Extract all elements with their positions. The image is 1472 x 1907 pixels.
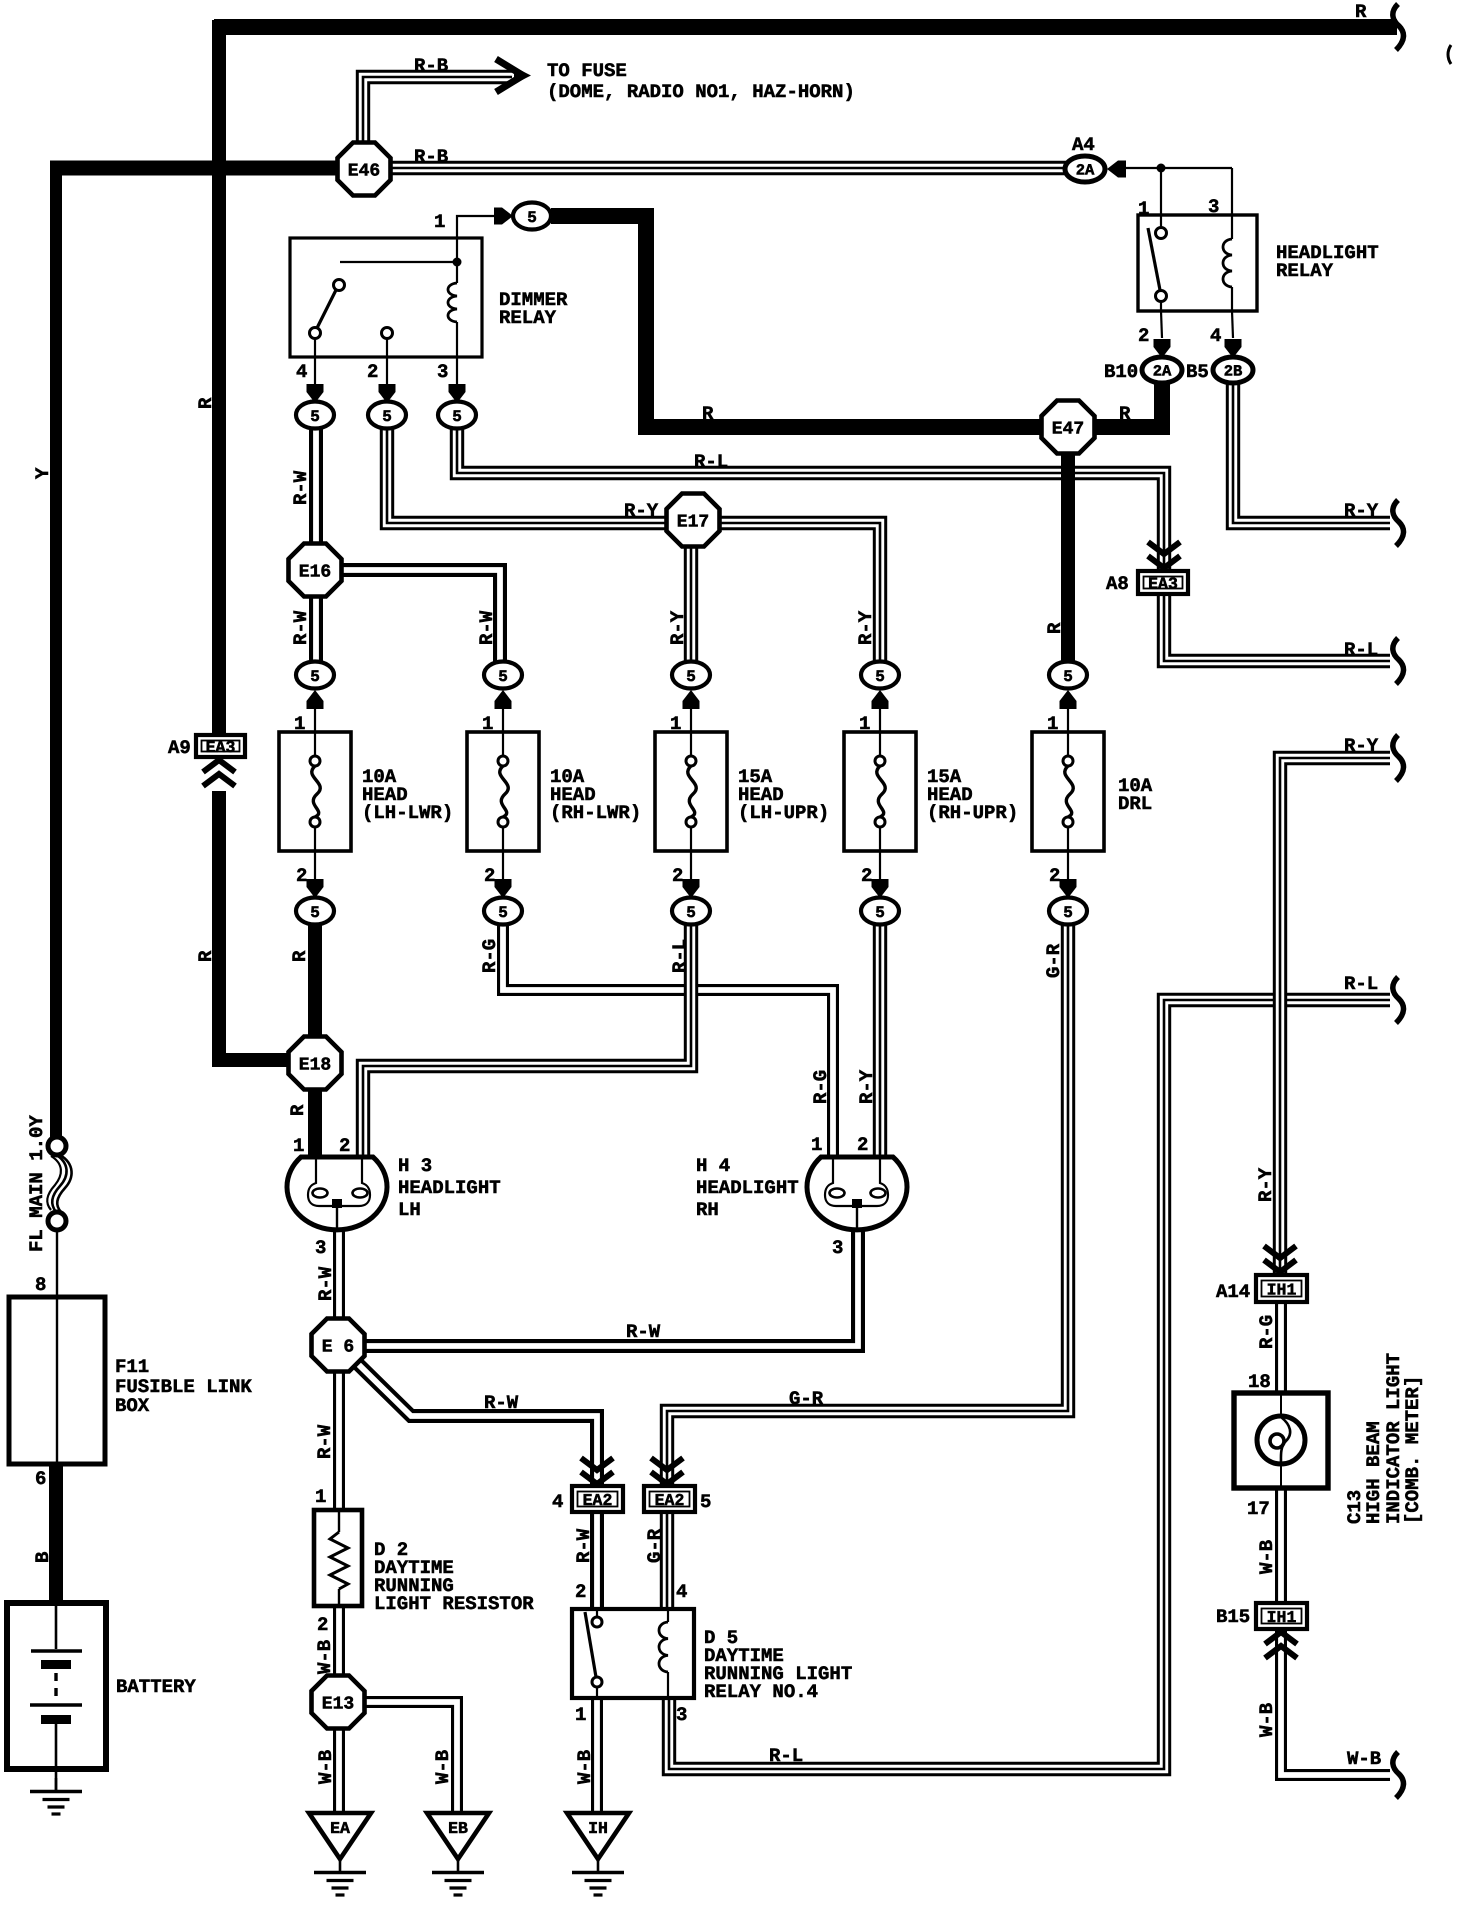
svg-text:4: 4 (296, 361, 307, 383)
fuse 15A (LH-UPR) pin1 label (670, 713, 681, 735)
wire W-B label (to IH) (574, 1750, 596, 1784)
arrow into oval 5 (dimmer feed) (494, 208, 513, 225)
wire R-Y label (dimmer pin2) (624, 500, 659, 522)
svg-text:E47: E47 (1052, 420, 1084, 440)
svg-text:R-Y: R-Y (855, 610, 877, 645)
wire R label (top right) (1355, 1, 1367, 23)
wire W-B (E13 to ground EA) (333, 1727, 345, 1814)
svg-text:R: R (702, 403, 714, 425)
headlight relay pin labels top (1138, 196, 1219, 220)
wire R-W (H3 pin3 to E6) (333, 1231, 345, 1322)
svg-text:17: 17 (1247, 1498, 1270, 1520)
svg-text:5: 5 (875, 668, 885, 686)
headlight relay pin2 lead (1138, 311, 1162, 347)
connector B10/2A (1104, 357, 1182, 383)
arrow into oval above fuse 10A (RH-LWR) (495, 690, 512, 733)
edge connector R-Y (upper) (1393, 500, 1404, 546)
svg-text:EB: EB (448, 1819, 468, 1838)
svg-text:RELAY: RELAY (1276, 260, 1334, 282)
svg-text:G-R: G-R (789, 1388, 824, 1410)
text D 2 DAYTIME RUNNING LIGHT RESISTOR (374, 1539, 534, 1615)
svg-text:5: 5 (686, 904, 696, 922)
svg-text:2: 2 (484, 865, 495, 887)
svg-text:W-B: W-B (1256, 1703, 1278, 1737)
arrow into oval below fuse 10A (RH-LWR) (495, 851, 512, 898)
svg-text:A14: A14 (1216, 1281, 1250, 1303)
fuse 10A DRL (1032, 732, 1104, 851)
svg-text:RELAY: RELAY (499, 307, 557, 329)
wire R (main feed bus, top) (214, 19, 1397, 35)
oval 5 (dimmer pin3) (438, 402, 476, 429)
wire G-R (fuse DRL output to connector EA2 pin5) (667, 924, 1068, 1486)
svg-text:4: 4 (1210, 325, 1221, 347)
headlight relay switch (1148, 215, 1167, 311)
svg-text:2: 2 (339, 1135, 350, 1157)
wire R (E47 down to DRL fuse oval) (1061, 450, 1075, 664)
arrow into oval below fuse 10A (LH-LWR) (307, 851, 324, 898)
svg-text:EA2: EA2 (655, 1491, 685, 1510)
text TO FUSE (547, 60, 627, 82)
arrow into oval above fuse 15A (RH-UPR) (872, 690, 889, 733)
wire R label (E47 to B10) (1119, 403, 1131, 425)
svg-text:E46: E46 (348, 162, 380, 182)
svg-text:5: 5 (527, 209, 537, 227)
text H 4 HEADLIGHT RH (696, 1155, 799, 1221)
svg-text:R-L: R-L (1344, 973, 1378, 995)
connector B5/2B (1186, 357, 1253, 383)
D5 pin1 label (575, 1704, 586, 1726)
svg-text:R: R (1044, 622, 1066, 634)
connector IH1 (A14) (1216, 1275, 1307, 1303)
wire R-L label (right edge upper) (1344, 639, 1378, 661)
svg-text:E18: E18 (299, 1056, 331, 1076)
wire R label (fuse LH-LWR output) (289, 950, 311, 962)
svg-text:5: 5 (310, 408, 320, 426)
svg-text:R-L: R-L (669, 939, 691, 973)
headlight relay feed wire (1126, 164, 1232, 216)
arrow into B10/2A (1154, 339, 1171, 358)
svg-text:R-B: R-B (414, 55, 448, 77)
svg-text:R: R (1119, 403, 1131, 425)
wire W-B label (to EA) (315, 1750, 337, 1784)
svg-text:R-G: R-G (479, 939, 501, 973)
wire R label (E18 to H3) (287, 1104, 309, 1116)
wire W-B (D5 pin1 to ground IH) (591, 1698, 603, 1814)
fuse 15A (RH-UPR) pin2 label (861, 865, 872, 887)
edge connector W-B (bottom) (1393, 1752, 1404, 1798)
dimmer relay box (290, 238, 482, 357)
wire R-W label (E6 to H4) (626, 1321, 661, 1343)
wire R-B label (to fuse) (414, 55, 448, 77)
svg-text:R-L: R-L (769, 1745, 803, 1767)
svg-text:2: 2 (861, 865, 872, 887)
svg-text:B10: B10 (1104, 361, 1138, 383)
fuse 15A (LH-UPR) (655, 732, 727, 851)
svg-text:HEADLIGHT: HEADLIGHT (696, 1177, 799, 1199)
fuse 15A (RH-UPR) value label (927, 766, 1018, 824)
svg-text:R-B: R-B (414, 146, 448, 168)
wire W-B label (C13 to B15) (1256, 1540, 1278, 1574)
wire R-G label (H4 pin1) (810, 1070, 832, 1104)
dimmer pin2 lead (367, 357, 387, 385)
svg-text:HIGH BEAM: HIGH BEAM (1363, 1421, 1385, 1524)
wire R-Y (dimmer pin2 to E17) (387, 428, 668, 523)
wire R-W (E6 to H4 pin3) (364, 1231, 858, 1346)
fuse 10A (RH-LWR) value label (550, 766, 641, 824)
svg-text:FL MAIN 1.0Y: FL MAIN 1.0Y (26, 1115, 48, 1252)
wire R-W (EA2 to D5 pin2) (590, 1512, 604, 1611)
svg-text:B5: B5 (1186, 361, 1209, 383)
oval 5 (above fuse 10A (RH-LWR)) (484, 662, 522, 689)
svg-text:A9: A9 (168, 737, 191, 759)
svg-text:RELAY NO.4: RELAY NO.4 (704, 1681, 818, 1703)
wire R-W (E16 right to fuse RH-LWR) (341, 570, 500, 663)
wire R-W (dimmer pin4 to E16) (309, 428, 323, 546)
fuse 10A (RH-LWR) pin1 label (482, 713, 493, 735)
wire R-Y (E17 down to fuse LH-UPR) (684, 546, 698, 663)
arrow to fuse (open arrowhead) (496, 59, 531, 92)
connector E18 (289, 1037, 342, 1090)
headlight relay box (1138, 215, 1257, 311)
oval 5 (below fuse 15A (LH-UPR)) (672, 898, 710, 925)
chevron into EA2 pin5 (651, 1458, 683, 1484)
wire R-Y (headlight relay B5/2B to right edge) (1233, 384, 1390, 523)
wire R-Y label (E17 to LH-UPR fuse) (667, 610, 689, 645)
svg-text:LIGHT RESISTOR: LIGHT RESISTOR (374, 1593, 534, 1615)
connector E46 (338, 143, 391, 196)
D5 coil (659, 1609, 668, 1698)
svg-text:5: 5 (498, 904, 508, 922)
wire R-W label (pin4 to E16) (290, 470, 312, 505)
wire R-L (D5 pin3 loop to right edge) (669, 1000, 1390, 1769)
wire R-L label (right edge lower) (1344, 973, 1378, 995)
text H 3 HEADLIGHT LH (398, 1155, 501, 1221)
oval 5 (dimmer pin2) (368, 402, 406, 429)
svg-text:6: 6 (35, 1468, 46, 1490)
dimmer relay switch (310, 258, 462, 358)
svg-text:4: 4 (676, 1581, 687, 1603)
wire R-W label (E16 to RH-LWR fuse) (476, 610, 498, 645)
svg-text:R-W: R-W (484, 1392, 519, 1414)
arrow into oval above fuse 10A (LH-LWR) (307, 690, 324, 733)
wire W-B label (D2 to E13) (314, 1640, 336, 1674)
svg-text:R-L: R-L (694, 451, 728, 473)
arrow into dimmer pin2 oval (379, 384, 396, 403)
arrow into oval above fuse 10A DRL (1060, 690, 1077, 733)
dimmer relay coil (448, 238, 457, 357)
dimmer relay pin1 label (434, 211, 445, 233)
svg-text:R-Y: R-Y (624, 500, 659, 522)
wire R-W label (E6 to D2) (314, 1424, 336, 1459)
svg-text:2: 2 (317, 1614, 328, 1636)
svg-text:1: 1 (811, 1134, 822, 1156)
wire Y (battery feed horizontal) (50, 161, 340, 176)
svg-text:4: 4 (552, 1491, 563, 1513)
svg-text:W-B: W-B (314, 1640, 336, 1674)
wire R-G label (fuse RH-LWR out) (479, 939, 501, 973)
oval 5 (below fuse 15A (RH-UPR)) (861, 898, 899, 925)
svg-text:2B: 2B (1224, 363, 1243, 381)
wire R-Y label (2B to edge) (1344, 500, 1379, 522)
wire W-B label (right edge) (1347, 1748, 1381, 1770)
svg-text:R-G: R-G (1256, 1315, 1278, 1349)
daytime running light relay D5 box (572, 1609, 694, 1698)
svg-text:LH: LH (398, 1199, 421, 1221)
wire R-L label (dimmer pin3) (694, 451, 728, 473)
wire R-Y (E17 right to fuse RH-UPR) (718, 523, 880, 663)
svg-text:R-Y: R-Y (856, 1069, 878, 1104)
text D 5 DAYTIME RUNNING LIGHT RELAY NO.4 (704, 1627, 852, 1703)
svg-text:R-Y: R-Y (1344, 500, 1379, 522)
text FL MAIN 1.0Y (26, 1115, 48, 1252)
oval 5 (dimmer pin4) (296, 402, 334, 429)
oval 5 (above fuse 10A DRL) (1049, 662, 1087, 689)
svg-text:R-W: R-W (626, 1321, 661, 1343)
wire R-B (E46 to connector A4/2A) (388, 161, 1066, 175)
svg-text:E16: E16 (299, 563, 331, 583)
wire R-W (E16 down to fuse LH-LWR) (309, 594, 323, 663)
C13 pin17 label (1247, 1498, 1270, 1520)
edge connector R-L (upper) (1393, 638, 1404, 684)
svg-text:2A: 2A (1153, 363, 1172, 381)
wire Y (battery feed vertical) (32, 161, 56, 1137)
D5 switch (585, 1609, 602, 1698)
wire R-W label (E6 to EA2) (484, 1392, 519, 1414)
svg-text:F11: F11 (115, 1356, 149, 1378)
svg-text:B15: B15 (1216, 1606, 1250, 1628)
svg-text:2: 2 (1138, 325, 1149, 347)
arrow into oval below fuse 15A (LH-UPR) (683, 851, 700, 898)
svg-text:R-Y: R-Y (1255, 1167, 1277, 1202)
fuse 10A (LH-LWR) pin2 label (296, 865, 307, 887)
wire R (dimmer relay pin1 feed, thick) (551, 216, 1046, 427)
connector E16 (289, 544, 342, 597)
svg-text:(RH-UPR): (RH-UPR) (927, 802, 1018, 824)
D5 pin4 label (676, 1581, 687, 1603)
wire R-W (E6 down to resistor D2) (333, 1370, 345, 1512)
arrow into B5/2B (1225, 339, 1242, 358)
connector E17 (667, 494, 720, 547)
svg-text:BOX: BOX (115, 1395, 150, 1417)
wire W-B label (below B15) (1256, 1703, 1278, 1737)
chevron into EA3/A8 (1148, 542, 1180, 568)
svg-text:1: 1 (315, 1486, 326, 1508)
svg-text:1: 1 (293, 1135, 304, 1157)
svg-text:(DOME, RADIO NO1, HAZ-HORN): (DOME, RADIO NO1, HAZ-HORN) (547, 81, 855, 103)
svg-text:[COMB. METER]: [COMB. METER] (1402, 1376, 1424, 1524)
svg-text:2: 2 (367, 361, 378, 383)
arrow into oval above fuse 15A (LH-UPR) (683, 690, 700, 733)
svg-text:R: R (1355, 1, 1367, 23)
svg-text:E 6: E 6 (322, 1338, 354, 1358)
svg-text:E13: E13 (322, 1695, 354, 1715)
svg-text:R-Y: R-Y (667, 610, 689, 645)
headlight H3 (LH) (287, 1157, 387, 1231)
wire R (EA3/A9 to E18) (219, 791, 292, 1060)
text (DOME, RADIO NO1, HAZ-HORN) (547, 81, 855, 103)
dimmer relay pin1 wire (457, 216, 494, 238)
headlight relay coil (1223, 215, 1232, 311)
oval 5 (dimmer feed) (513, 203, 551, 230)
headlight H4 pin labels (811, 1134, 868, 1156)
wire R (E18 to headlight H3 pin 1) (308, 1086, 322, 1158)
svg-text:W-B: W-B (574, 1750, 596, 1784)
fuse 15A (LH-UPR) value label (738, 766, 829, 824)
svg-text:2: 2 (296, 865, 307, 887)
wire FL to F11 (56, 1230, 58, 1297)
wire W-B (D2 to E13) (333, 1604, 345, 1679)
svg-text:2: 2 (857, 1134, 868, 1156)
wire R (fuse LH-LWR output to E18) (308, 921, 322, 1040)
wire R-B label (E46 to A4) (414, 146, 448, 168)
svg-text:2: 2 (575, 1581, 586, 1603)
oval 5 (below fuse 10A (RH-LWR)) (484, 898, 522, 925)
connector E6 (312, 1319, 365, 1372)
svg-text:R: R (195, 397, 217, 409)
connector E47 (1042, 401, 1095, 454)
fuse 15A (LH-UPR) pin2 label (672, 865, 683, 887)
fuse 10A DRL pin1 label (1047, 713, 1058, 735)
svg-text:DRL: DRL (1118, 793, 1152, 815)
svg-text:G-R: G-R (1043, 943, 1065, 978)
dimmer pin4 lead (296, 357, 315, 385)
wire R-L label (bottom) (769, 1745, 803, 1767)
wire W-B (C13 pin17 to IH1/B15) (1275, 1486, 1287, 1602)
svg-text:BATTERY: BATTERY (116, 1676, 196, 1698)
wire W-B (B15 to right edge) (1281, 1630, 1390, 1775)
svg-text:(LH-LWR): (LH-LWR) (362, 802, 453, 824)
arrow into A4/2A (1107, 161, 1126, 178)
oval 5 (above fuse 15A (RH-UPR)) (861, 662, 899, 689)
D2 pin1 label (315, 1486, 326, 1508)
daytime running light resistor D2 (314, 1510, 362, 1606)
headlight H3 pin labels (293, 1135, 350, 1157)
wire R label (vertical feed, upper) (195, 397, 217, 409)
text F11 FUSIBLE LINK BOX (115, 1356, 252, 1417)
arrow into dimmer pin4 oval (307, 384, 324, 403)
wire R-Y label (long vertical) (1255, 1167, 1277, 1202)
wire R-Y label (E17 to RH-UPR fuse) (855, 610, 877, 645)
chevron into EA2 pin4 (581, 1458, 613, 1484)
svg-text:H 3: H 3 (398, 1155, 432, 1177)
svg-text:2: 2 (672, 865, 683, 887)
svg-text:3: 3 (832, 1237, 843, 1259)
svg-text:W-B: W-B (432, 1750, 454, 1784)
edge connector R-L (lower) (1393, 977, 1404, 1023)
svg-text:A8: A8 (1106, 573, 1129, 595)
wire R-L label (fuse LH-UPR out) (669, 939, 691, 973)
fuse 15A (RH-UPR) (844, 732, 916, 851)
fuse 10A (RH-LWR) (467, 732, 539, 851)
fuse 10A (LH-LWR) value label (362, 766, 453, 824)
wire R-Y (right edge to connector IH1/A14) (1280, 758, 1390, 1275)
wire R label (E47 to DRL) (1044, 622, 1066, 634)
svg-text:2: 2 (1049, 865, 1060, 887)
wire R-Y label (H4 pin2) (856, 1069, 878, 1104)
svg-text:HEADLIGHT: HEADLIGHT (398, 1177, 501, 1199)
svg-text:8: 8 (35, 1274, 46, 1296)
wire R-G (fuse RH-LWR output to H4 pin 1) (503, 924, 833, 1158)
wire R-Y (fuse RH-UPR output to H4 pin 2) (873, 924, 887, 1158)
wire B label (32, 1552, 54, 1563)
svg-text:R-W: R-W (315, 1266, 337, 1301)
fuse 10A (LH-LWR) (279, 732, 351, 851)
svg-text:R: R (289, 950, 311, 962)
svg-text:5: 5 (382, 408, 392, 426)
wire R-G (IH1/A14 to C13 pin18) (1275, 1303, 1287, 1395)
wire R (E47 to headlight relay B10) (1090, 384, 1162, 427)
F11 pin8 label (35, 1274, 46, 1296)
wire R-Y label (edge to A14) (1344, 735, 1379, 757)
edge connector R (top) (1393, 4, 1404, 50)
wire G-R label (EA2 to D5) (644, 1528, 666, 1563)
svg-text:IH: IH (588, 1819, 608, 1838)
svg-text:R-W: R-W (290, 470, 312, 505)
edge connector R-Y (middle) (1393, 735, 1404, 781)
svg-text:5: 5 (700, 1491, 711, 1513)
headlight H4 (RH) (807, 1157, 907, 1231)
text C13 HIGH BEAM INDICATOR LIGHT [COMB. METER] (1344, 1353, 1424, 1524)
page edge mark (1448, 45, 1451, 64)
wire R-L (EA3/A8 to right edge) (1164, 594, 1390, 661)
svg-text:2A: 2A (1076, 162, 1095, 180)
svg-text:H 4: H 4 (696, 1155, 730, 1177)
chevron below B15 (pointing up) (1265, 1632, 1297, 1658)
headlight relay pin4 lead (1210, 311, 1233, 347)
wire R-W label (E16 to LH-LWR fuse) (290, 610, 312, 645)
svg-text:5: 5 (1063, 904, 1073, 922)
chevron into EA3/A9 (pointing up) (203, 760, 235, 786)
wire R label (vertical feed, lower) (195, 950, 217, 962)
svg-text:5: 5 (875, 904, 885, 922)
svg-text:G-R: G-R (644, 1528, 666, 1563)
svg-text:E17: E17 (677, 513, 709, 533)
dimmer relay middle contact (382, 328, 393, 358)
svg-text:3: 3 (676, 1704, 687, 1726)
fusible link FL MAIN 1.0Y (47, 1137, 71, 1230)
wire B (fusible link box to battery) (49, 1462, 63, 1605)
svg-text:EA: EA (330, 1819, 350, 1838)
svg-text:(RH-LWR): (RH-LWR) (550, 802, 641, 824)
connector EA2 (pin5) (644, 1486, 711, 1513)
svg-text:W-B: W-B (1347, 1748, 1381, 1770)
svg-text:5: 5 (1063, 668, 1073, 686)
wire R (vertical feed to connector EA3/A9) (212, 20, 226, 737)
svg-text:W-B: W-B (315, 1750, 337, 1784)
svg-text:EA2: EA2 (583, 1491, 613, 1510)
svg-text:R-G: R-G (810, 1070, 832, 1104)
svg-text:EA3: EA3 (1148, 575, 1178, 594)
text HEADLIGHT RELAY (1276, 242, 1379, 282)
svg-text:R-L: R-L (1344, 639, 1378, 661)
fuse 10A DRL value label (1118, 775, 1153, 815)
wire G-R (EA2 to D5 pin4) (660, 1512, 674, 1611)
svg-text:Y: Y (32, 467, 54, 479)
svg-text:5: 5 (310, 904, 320, 922)
D5 pin2 label (575, 1581, 586, 1603)
oval 5 (below fuse 10A DRL) (1049, 898, 1087, 925)
svg-text:18: 18 (1248, 1371, 1271, 1393)
headlight H3 pin3 label (315, 1237, 326, 1259)
svg-text:(LH-UPR): (LH-UPR) (738, 802, 829, 824)
svg-text:R-W: R-W (290, 610, 312, 645)
connector E13 (312, 1676, 365, 1729)
headlight H4 pin3 label (832, 1237, 843, 1259)
svg-text:5: 5 (686, 668, 696, 686)
wire W-B label (to EB) (432, 1750, 454, 1784)
fuse 15A (RH-UPR) pin1 label (859, 713, 870, 735)
svg-text:R-W: R-W (573, 1528, 595, 1563)
